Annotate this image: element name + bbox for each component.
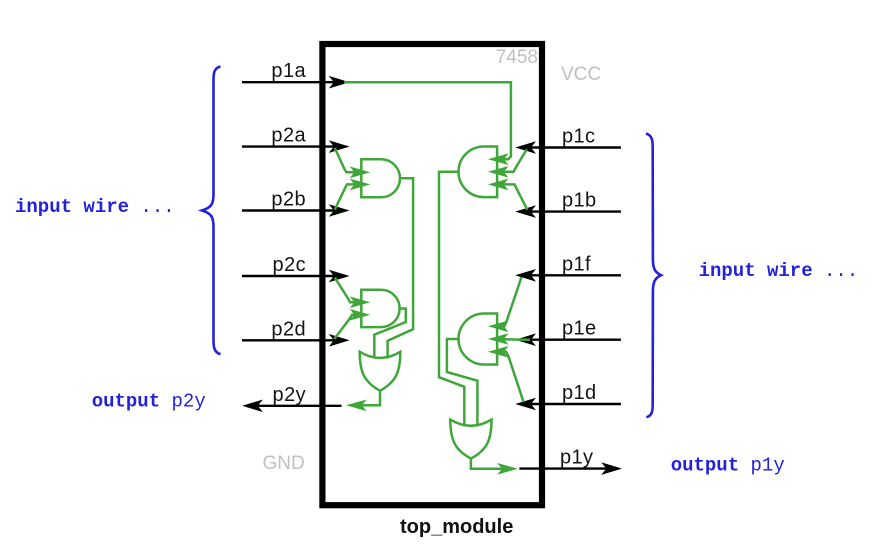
pin p1b arrowhead <box>515 205 536 218</box>
pin p2a wire <box>242 145 335 147</box>
pin p1e arrowhead <box>515 333 536 346</box>
gate D input arrowheads <box>488 321 509 333</box>
net p2d wire <box>334 315 356 339</box>
gate A input arrowheads <box>350 167 371 179</box>
svg-text:VCC: VCC <box>561 64 601 85</box>
svg-text:p1y: p1y <box>560 447 593 469</box>
svg-text:p2c: p2c <box>273 254 306 276</box>
net p1c wire <box>504 149 527 171</box>
net p1y output arrowhead <box>497 463 518 475</box>
svg-text:p1b: p1b <box>562 190 597 212</box>
svg-text:GND: GND <box>263 453 305 474</box>
net p1d wire <box>502 352 524 402</box>
svg-text:p1f: p1f <box>562 253 591 275</box>
pin p1a wire <box>242 81 335 83</box>
pin p1y wire <box>519 467 607 469</box>
pin p1c wire <box>530 146 621 148</box>
svg-text:output p2y: output p2y <box>92 391 206 413</box>
svg-text:7458: 7458 <box>496 47 538 68</box>
svg-text:input wire ...: input wire ... <box>699 260 859 282</box>
svg-text:p2y: p2y <box>273 384 306 406</box>
and gate D output wire <box>447 339 478 427</box>
right brace (input group) <box>646 134 661 418</box>
pin p1f wire <box>530 274 621 276</box>
and gate A body (p2a,p2b) <box>361 159 400 197</box>
pin p2d wire <box>242 339 335 341</box>
svg-text:p1d: p1d <box>562 382 597 404</box>
pin p1a arrowhead <box>329 76 350 89</box>
svg-text:p2d: p2d <box>271 318 306 340</box>
svg-text:p2a: p2a <box>271 125 306 147</box>
svg-text:p1a: p1a <box>271 60 306 82</box>
gate B input arrowheads <box>350 296 371 308</box>
pin p2y arrowhead <box>242 400 263 413</box>
pin p2y wire <box>256 405 342 407</box>
pin p1e wire <box>530 339 621 341</box>
or gate F body (p1y) <box>450 420 491 459</box>
pin p1f arrowhead <box>515 269 536 282</box>
and gate B body (p2c,p2d) <box>361 290 399 327</box>
pin p1b wire <box>530 210 621 212</box>
svg-text:p1e: p1e <box>562 318 597 340</box>
and gate C output wire <box>439 172 464 427</box>
net p2b wire <box>335 184 356 209</box>
gate C input arrowheads <box>488 153 509 165</box>
svg-text:top_module: top_module <box>400 516 513 538</box>
svg-text:input wire ...: input wire ... <box>15 196 175 218</box>
svg-text:p1c: p1c <box>562 126 595 148</box>
net p2a wire <box>335 148 356 172</box>
net p1f wire <box>502 277 522 326</box>
net p2y output arrowhead <box>346 400 367 412</box>
and gate B output wire <box>374 309 406 359</box>
net p1e wire <box>504 338 530 341</box>
net p2c wire <box>335 278 356 303</box>
left brace (input group) <box>202 66 221 354</box>
pin p1d wire <box>530 403 621 405</box>
pin p1c arrowhead <box>515 141 536 154</box>
svg-text:p2b: p2b <box>271 189 306 211</box>
net p1a wire (top run) <box>344 82 511 159</box>
or gate E output wire <box>362 391 380 406</box>
pin p2c arrowhead <box>329 270 350 283</box>
or gate F output wire <box>471 459 502 469</box>
and gate A output wire <box>388 178 414 358</box>
and gate D body (p1d,p1e,p1f) <box>459 314 498 365</box>
pin p2b arrowhead <box>329 204 350 217</box>
pin p1d arrowhead <box>515 398 536 411</box>
svg-text:output p1y: output p1y <box>671 454 785 476</box>
or gate E body (p2y) <box>360 352 401 391</box>
chip body U1 top_module <box>322 44 542 505</box>
pin p2a arrowhead <box>329 140 350 153</box>
pin p2b wire <box>242 209 335 211</box>
pin p1y arrowhead <box>601 462 622 475</box>
and gate C body (p1a,p1b,p1c) <box>459 147 498 198</box>
pin p2d arrowhead <box>329 334 350 347</box>
pin p2c wire <box>242 275 335 277</box>
net p1b wire <box>504 184 527 209</box>
